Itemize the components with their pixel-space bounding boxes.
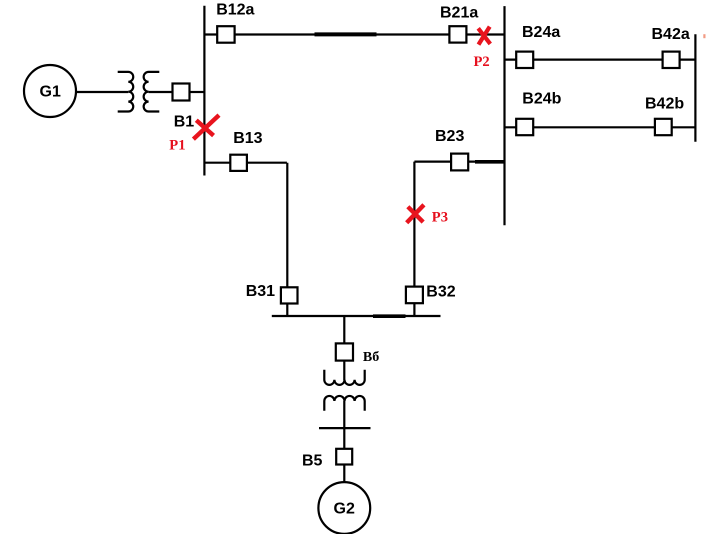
svg-text:B32: B32 [426,284,455,301]
fault mark P2 (red X on line 1-2) [480,28,490,42]
svg-text:B31: B31 [246,283,275,300]
breaker B6 [336,343,353,360]
wire G1 to transformer T1 [76,91,128,93]
svg-text:B21a: B21a [440,4,478,21]
svg-text:B42b: B42b [645,95,684,112]
stray red mark near bus 4 top [703,34,705,38]
svg-text:B42a: B42a [652,26,690,43]
bus 3 (horizontal busbar) [272,315,441,317]
svg-text:B12a: B12a [216,1,254,18]
svg-text:B5: B5 [302,452,323,469]
wire breaker to bus 1 [190,91,205,93]
svg-text:P3: P3 [432,209,448,225]
svg-text:P1: P1 [169,137,185,153]
breaker B13 [230,155,247,171]
breaker B21a [449,26,466,42]
transformer T2 primary winding (top) [324,370,364,385]
breaker B42b [655,119,672,135]
line 2-3 (B23 row) [414,161,504,163]
transformer T1 secondary winding (right) [144,72,160,112]
svg-text:Вб: Вб [363,350,379,365]
svg-text:B13: B13 [233,130,262,147]
generator breaker square (G1) [173,84,190,101]
wire B23 corner down to bus 3 (through B32) [413,162,415,316]
wire B13 corner down to bus 3 (through B31) [286,163,288,316]
svg-text:G2: G2 [334,500,355,517]
bus 1 (vertical) [203,6,205,176]
wire T1 to generator breaker [149,91,173,93]
breaker B12a [217,26,234,43]
wire B6 to transformer T2 [343,361,345,380]
fault mark P3 (red X on line 2-3 branch) [408,206,422,221]
breaker B32 [406,287,423,304]
breaker B5 [336,449,352,465]
svg-text:B24a: B24a [522,24,560,41]
breaker B42a [663,52,680,68]
svg-text:B1: B1 [174,114,195,131]
bus 4 (right vertical) [694,34,696,142]
svg-text:G1: G1 [40,84,61,101]
generator G2 [318,482,370,534]
thick segment on line 2-3 [475,160,504,164]
svg-text:P2: P2 [474,54,490,70]
transformer T1 primary winding (left) [118,72,134,112]
tap line below T2 [319,427,371,429]
breaker B24a [516,52,533,68]
thick line segment on line 1-2 [315,32,377,36]
fault mark P1 (red X on bus 1) [195,117,217,138]
wire bus1 to bus2 (line 1-2) [204,33,504,35]
svg-text:B23: B23 [435,128,464,145]
bus 2 (vertical) [503,6,505,225]
breaker B24b [516,119,533,135]
line 1-3 (B13 row) [204,162,287,164]
wire B5 to generator G2 [343,465,345,483]
line 2-4a [505,58,696,60]
generator G1 [24,65,76,117]
transformer T2 secondary winding (bottom) [324,396,364,411]
line 2-4b [505,126,696,128]
svg-text:B24b: B24b [522,90,561,107]
breaker B23 [451,154,468,171]
wire bus 3 down to breaker B6 [343,316,345,344]
thick segment on bus 3 [373,314,406,318]
wire T2 down to breaker B5 [343,401,345,449]
breaker B31 [281,287,298,303]
